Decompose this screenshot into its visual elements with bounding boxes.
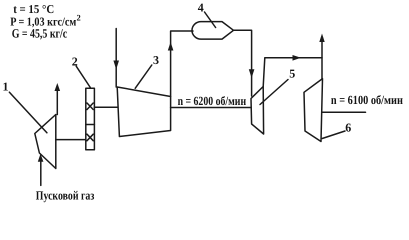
svg-text:4: 4 — [198, 0, 204, 14]
svg-text:2: 2 — [77, 13, 81, 23]
svg-text:3: 3 — [153, 53, 159, 67]
wire leader to 3 — [135, 65, 152, 88]
wire leader to 6 — [322, 131, 345, 139]
svg-text:1: 1 — [3, 80, 9, 94]
wire shaft compressor to HP turbine — [171, 107, 251, 109]
wire shaft coupling to compressor — [94, 106, 117, 108]
coupling K2 (reduction gear box with two X cells) — [86, 88, 95, 150]
wire combustor to HP turbine — [233, 30, 252, 96]
turbine T1 (starting turboexpander) — [35, 115, 56, 169]
turbine T6 (power turbine) — [304, 79, 323, 142]
node inlet-conditions text block — [10, 2, 80, 40]
wire compressor to combustor — [171, 31, 193, 97]
turbine T5 (HP turbine) — [251, 87, 264, 135]
svg-text:6: 6 — [345, 121, 351, 135]
combustor B4 (combustion chamber) — [192, 22, 233, 39]
wire leader to 5 — [260, 80, 288, 105]
wire HP turbine exhaust to power turbine — [263, 58, 322, 87]
wire exhaust stack arrow up — [321, 39, 323, 79]
wire air inlet arrow down to compressor — [115, 29, 117, 88]
wire output shaft of power turbine — [322, 111, 366, 113]
svg-text:n = 6200 об/мин: n = 6200 об/мин — [178, 94, 247, 108]
wire outlet arrow up from T1 — [56, 89, 58, 115]
svg-text:n = 6100 об/мин: n = 6100 об/мин — [331, 93, 403, 107]
svg-text:G = 45,5 кг/с: G = 45,5 кг/с — [12, 26, 68, 40]
compressor C3 (axial compressor trapezoid) — [117, 87, 170, 137]
wire leader to 4 — [205, 12, 216, 28]
wire leader to 1 — [9, 92, 47, 133]
wire leader to 2 — [76, 66, 90, 87]
svg-text:5: 5 — [289, 67, 295, 81]
wire starting-gas arrow into T1 — [40, 160, 42, 185]
wire shaft T1 to coupling — [56, 139, 86, 141]
svg-text:Пусковой газ: Пусковой газ — [36, 189, 95, 203]
